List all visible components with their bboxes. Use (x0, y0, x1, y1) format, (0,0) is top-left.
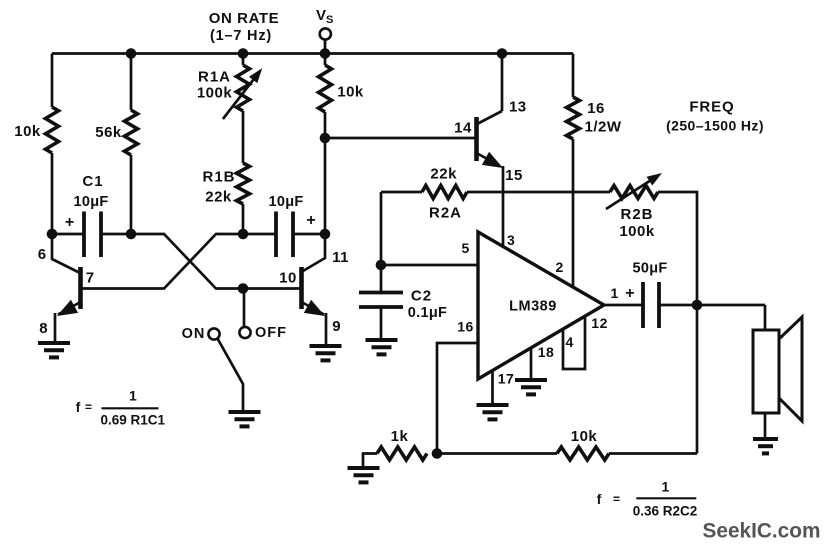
svg-text:FREQ: FREQ (689, 99, 734, 116)
svg-text:7: 7 (86, 270, 96, 287)
svg-text:1: 1 (129, 388, 138, 404)
svg-text:0.69 R1C1: 0.69 R1C1 (101, 413, 166, 428)
svg-text:(250–1500 Hz): (250–1500 Hz) (666, 118, 764, 134)
svg-text:10k: 10k (14, 123, 41, 140)
svg-text:13: 13 (509, 99, 527, 116)
svg-text:R2B: R2B (620, 206, 653, 223)
svg-text:R1A: R1A (198, 69, 231, 86)
svg-text:3: 3 (507, 232, 516, 248)
svg-text:ON RATE: ON RATE (209, 10, 280, 27)
svg-text:2: 2 (556, 259, 565, 275)
svg-text:=: = (613, 492, 620, 506)
svg-text:6: 6 (38, 246, 48, 263)
svg-text:18: 18 (538, 344, 555, 360)
svg-text:17: 17 (498, 371, 515, 387)
svg-text:f: f (597, 491, 602, 507)
svg-text:+: + (65, 214, 74, 231)
svg-text:50μF: 50μF (632, 261, 667, 277)
svg-text:1k: 1k (391, 428, 409, 445)
svg-text:=: = (85, 400, 92, 414)
svg-text:+: + (306, 212, 315, 229)
svg-text:0.36 R2C2: 0.36 R2C2 (633, 504, 698, 519)
svg-text:10μF: 10μF (268, 194, 303, 210)
svg-text:R2A: R2A (429, 205, 462, 222)
svg-text:56k: 56k (95, 124, 122, 141)
svg-text:SeekIC.com: SeekIC.com (703, 520, 821, 543)
svg-text:(1–7 Hz): (1–7 Hz) (210, 28, 272, 44)
svg-text:OFF: OFF (255, 325, 287, 341)
svg-text:100k: 100k (197, 85, 233, 102)
svg-text:4: 4 (566, 334, 575, 350)
svg-text:11: 11 (332, 249, 349, 266)
svg-text:R1B: R1B (202, 169, 235, 186)
svg-text:1: 1 (611, 285, 620, 301)
svg-text:14: 14 (454, 120, 472, 137)
svg-text:100k: 100k (619, 223, 655, 240)
svg-text:C2: C2 (411, 288, 432, 305)
svg-text:16: 16 (457, 319, 474, 335)
svg-text:22k: 22k (430, 166, 457, 183)
svg-text:5: 5 (462, 240, 471, 256)
svg-text:0.1μF: 0.1μF (408, 305, 447, 321)
svg-text:C1: C1 (82, 173, 103, 190)
svg-text:10k: 10k (337, 84, 364, 101)
svg-text:+: + (625, 285, 636, 302)
svg-text:8: 8 (39, 320, 49, 337)
svg-text:10: 10 (279, 270, 297, 287)
svg-text:15: 15 (505, 167, 523, 184)
svg-text:LM389: LM389 (509, 299, 557, 315)
svg-text:f: f (76, 399, 81, 415)
svg-text:ON: ON (182, 326, 206, 342)
svg-text:16: 16 (587, 100, 605, 117)
svg-text:1: 1 (662, 479, 671, 495)
svg-text:12: 12 (591, 315, 608, 331)
svg-text:9: 9 (332, 318, 342, 335)
svg-text:10μF: 10μF (73, 194, 108, 210)
svg-text:1/2W: 1/2W (584, 119, 621, 136)
svg-text:22k: 22k (205, 189, 232, 206)
svg-text:10k: 10k (571, 428, 598, 445)
